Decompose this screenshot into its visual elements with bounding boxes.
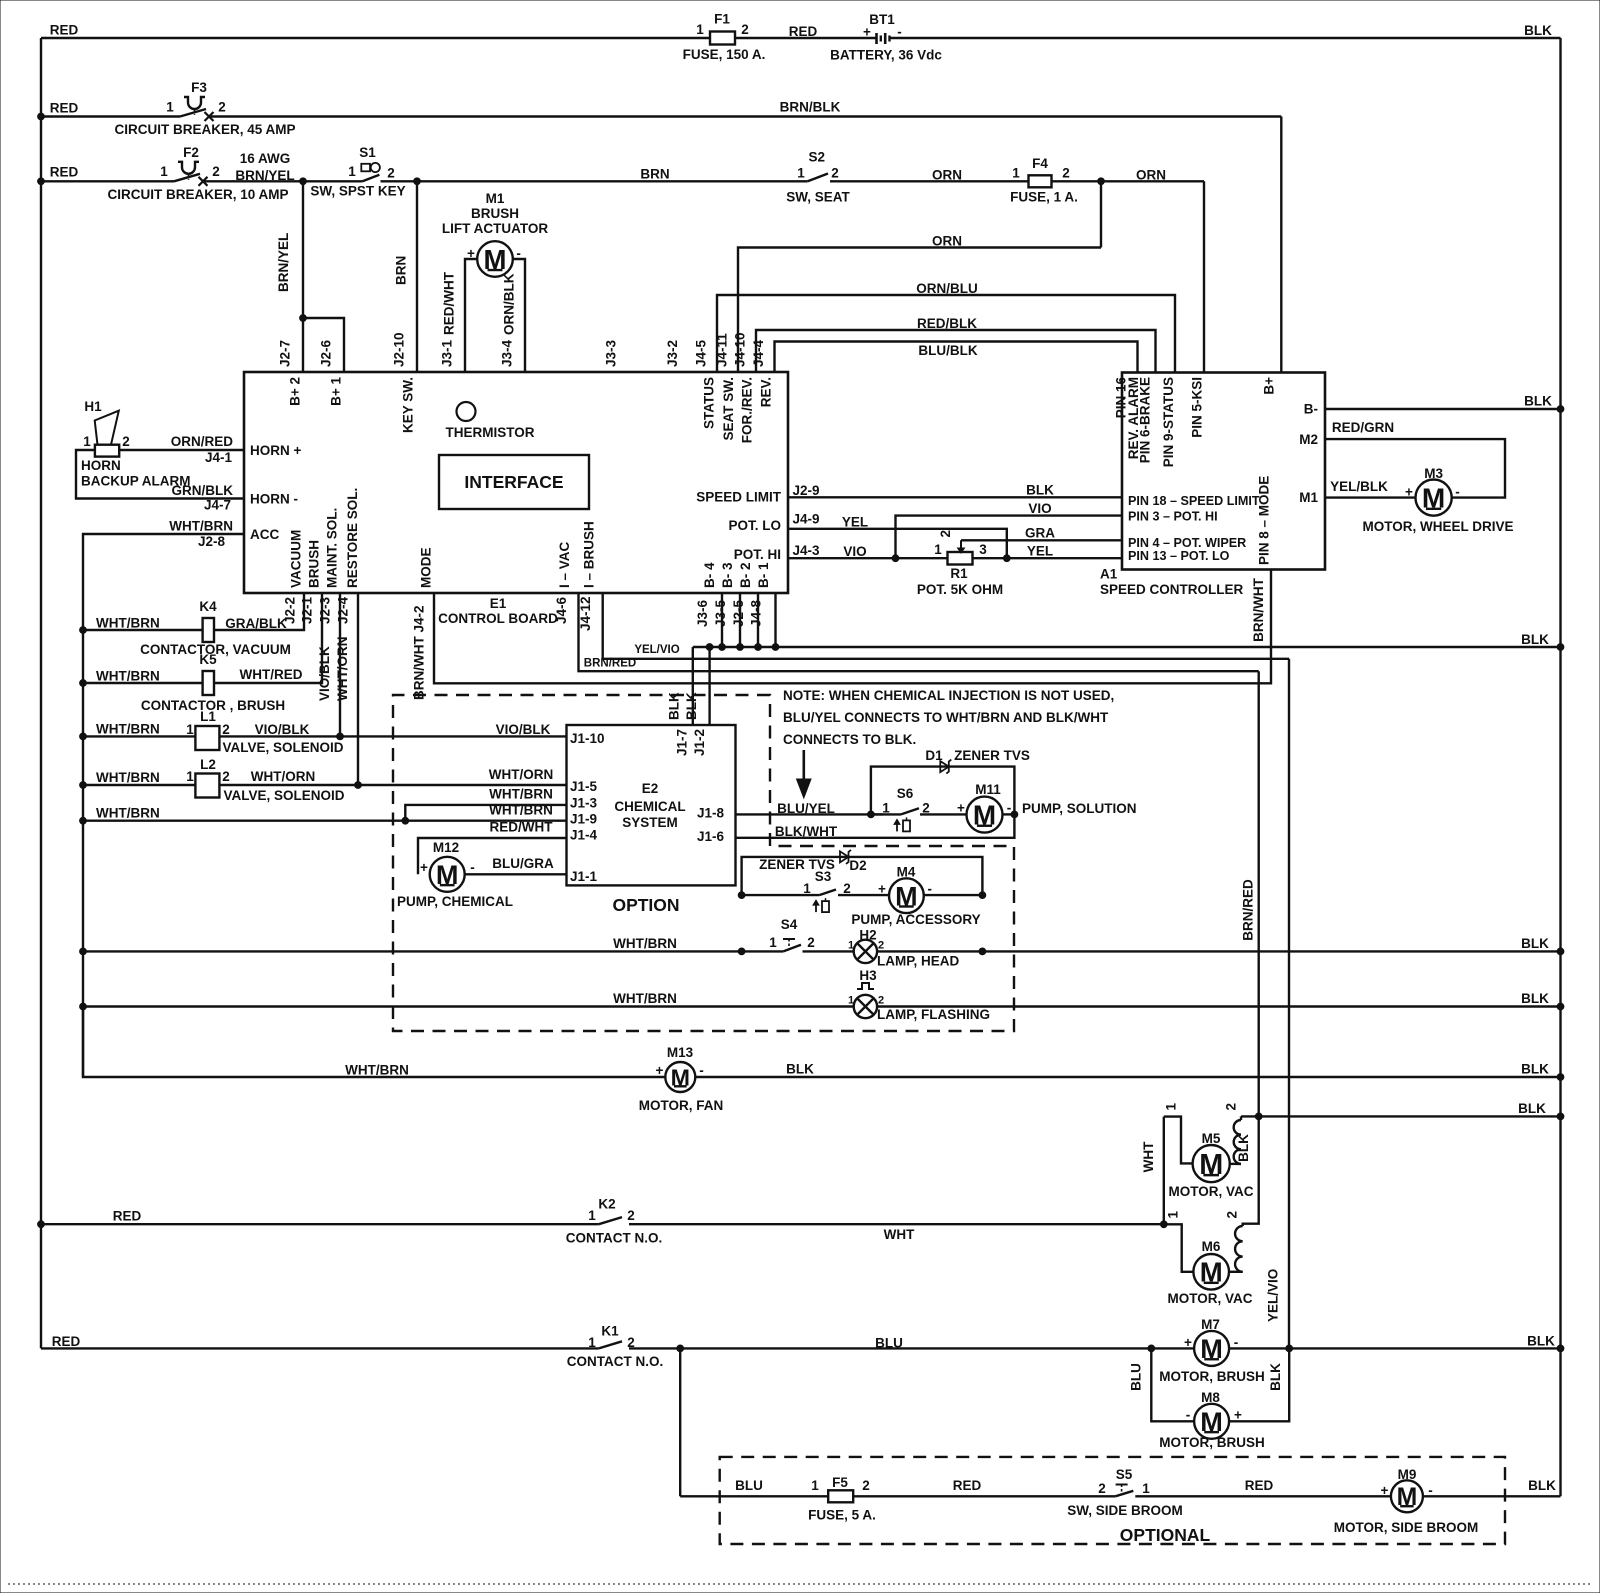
wire M5 lead 1 (1164, 1103, 1193, 1164)
svg-text:2: 2 (1062, 166, 1070, 181)
wire J3-1 RED/WHT (442, 259, 478, 372)
svg-text:BLK: BLK (1521, 1062, 1549, 1077)
svg-text:MOTOR, BRUSH: MOTOR, BRUSH (1159, 1369, 1265, 1384)
svg-text:WHT/BRN: WHT/BRN (613, 991, 677, 1006)
wire M13 to bus (695, 1062, 1564, 1081)
wire RED row2 (41, 101, 180, 117)
svg-text:ORN: ORN (932, 168, 962, 183)
svg-text:BLU/GRA: BLU/GRA (492, 856, 554, 871)
node J2-10 tap (414, 178, 421, 185)
wire WHT/BRN J1-9 row (83, 803, 567, 825)
wire ORN row (738, 234, 1101, 373)
svg-text:PIN 9-STATUS: PIN 9-STATUS (1161, 377, 1176, 467)
svg-text:BRN/YEL: BRN/YEL (235, 168, 294, 183)
svg-text:CONTACT N.O.: CONTACT N.O. (567, 1354, 664, 1369)
switch S5 (1067, 1467, 1183, 1518)
svg-text:-: - (699, 1063, 704, 1078)
wire RED/BLK row (756, 316, 1156, 373)
svg-text:1: 1 (934, 542, 942, 557)
svg-text:1: 1 (588, 1335, 596, 1350)
node K4 bus tap (80, 627, 87, 634)
wire RED/GRN M2 (1325, 420, 1505, 498)
svg-text:1: 1 (848, 940, 854, 952)
wire WHT/RED K5 to J2-1 (214, 593, 322, 683)
svg-text:ZENER TVS: ZENER TVS (954, 748, 1030, 763)
svg-text:WHT/BRN: WHT/BRN (96, 805, 160, 820)
label motor vac M5 (1168, 1184, 1253, 1199)
wire BLK row under board (693, 632, 1564, 651)
note text (783, 688, 1114, 747)
svg-text:I – VAC: I – VAC (557, 541, 572, 588)
svg-text:BRUSH: BRUSH (307, 540, 322, 588)
svg-text:ORN/BLU: ORN/BLU (916, 281, 978, 296)
wire J1-7 drop (667, 647, 693, 725)
svg-text:SPEED LIMIT: SPEED LIMIT (696, 490, 782, 505)
svg-text:RED: RED (953, 1478, 982, 1493)
svg-text:J2-3: J2-3 (318, 596, 333, 624)
node VIO tap (892, 555, 899, 562)
svg-text:BLK: BLK (1521, 632, 1549, 647)
svg-text:J1-7: J1-7 (674, 729, 689, 756)
svg-text:J4-3: J4-3 (792, 543, 820, 558)
svg-text:2: 2 (922, 800, 930, 815)
svg-text:YEL/BLK: YEL/BLK (1330, 479, 1388, 494)
svg-text:BLU: BLU (875, 1336, 903, 1351)
svg-text:2: 2 (222, 722, 230, 737)
wire GRA wiper (961, 526, 1122, 541)
wire WHT/BRN H2 row (83, 936, 783, 951)
lamp H2 head (848, 928, 884, 964)
svg-text:BATTERY, 36 Vdc: BATTERY, 36 Vdc (830, 47, 942, 62)
svg-text:J3-3: J3-3 (603, 339, 618, 367)
wire M5 BLK row (1241, 1101, 1564, 1120)
svg-text:2: 2 (831, 166, 839, 181)
svg-text:J1-4: J1-4 (570, 828, 598, 843)
node K5 bus tap (80, 680, 87, 687)
motor M4 pump accessory (878, 865, 932, 914)
svg-text:2: 2 (807, 935, 815, 950)
svg-text:2: 2 (122, 434, 130, 449)
svg-text:POT. LO: POT. LO (728, 518, 781, 533)
svg-text:RED/BLK: RED/BLK (917, 316, 977, 331)
wire GRN/BLK horn- (76, 450, 244, 513)
svg-text:WHT/BRN: WHT/BRN (96, 669, 160, 684)
svg-text:RED: RED (50, 101, 79, 116)
svg-text:CIRCUIT BREAKER, 45 AMP: CIRCUIT BREAKER, 45 AMP (114, 122, 295, 137)
svg-text:BRN/BLK: BRN/BLK (780, 100, 841, 115)
svg-text:+: + (957, 801, 965, 816)
svg-text:GRA: GRA (1025, 526, 1055, 541)
node L2 bus tap (80, 782, 87, 789)
svg-text:ORN/RED: ORN/RED (171, 434, 234, 449)
svg-text:BLK: BLK (1524, 394, 1552, 409)
svg-text:POT. 5K OHM: POT. 5K OHM (917, 582, 1003, 597)
svg-text:J2-1: J2-1 (300, 596, 315, 624)
svg-text:WHT/BRN: WHT/BRN (613, 936, 677, 951)
wire S3 to M4 (838, 894, 889, 896)
svg-text:CONNECTS TO BLK.: CONNECTS TO BLK. (783, 732, 916, 747)
wire S4 to H2 (738, 948, 854, 955)
wire ORN/BLU row (717, 281, 1175, 373)
wire left RED bus (40, 38, 42, 1348)
svg-text:GRN/BLK: GRN/BLK (172, 483, 234, 498)
switch S1 key (310, 145, 405, 198)
node J1-9 bus tap (80, 817, 87, 824)
svg-text:CONTROL BOARD: CONTROL BOARD (438, 611, 558, 626)
svg-text:S3: S3 (815, 869, 832, 884)
svg-text:J3-1: J3-1 (440, 339, 455, 367)
svg-text:+: + (1184, 1335, 1192, 1350)
wire BRN row3 (381, 166, 808, 181)
svg-text:M1: M1 (486, 191, 505, 206)
wire BRN/RED vertical (1241, 671, 1259, 1226)
svg-text:1: 1 (588, 1208, 596, 1223)
wire RED side broom 1 (853, 1478, 1115, 1496)
zener D1 (871, 748, 1030, 814)
wire BLU K1 row (629, 1336, 1194, 1352)
svg-text:2: 2 (1225, 1211, 1240, 1219)
svg-text:J4-6: J4-6 (554, 596, 569, 624)
wire BLK top row (890, 23, 1561, 38)
svg-text:SW, SIDE BROOM: SW, SIDE BROOM (1067, 1503, 1183, 1518)
svg-text:+: + (420, 860, 428, 875)
svg-text:F5: F5 (832, 1475, 848, 1490)
svg-text:1: 1 (1142, 1481, 1150, 1496)
svg-text:BRN/RED: BRN/RED (1241, 879, 1256, 941)
wire RED/WHT J1-4 (418, 820, 567, 875)
svg-text:J1-5: J1-5 (570, 779, 598, 794)
svg-text:KEY SW.: KEY SW. (401, 377, 416, 433)
svg-text:J2-10: J2-10 (392, 332, 407, 367)
wire ORN/RED horn+ (119, 434, 244, 465)
svg-text:M8: M8 (1201, 1390, 1220, 1405)
svg-text:1: 1 (848, 995, 854, 1007)
svg-text:BLK: BLK (1236, 1134, 1251, 1162)
svg-text:1: 1 (797, 166, 805, 181)
wire WHT/BRN J1-3 branch (405, 787, 566, 821)
svg-text:1: 1 (882, 800, 890, 815)
svg-text:F3: F3 (191, 80, 207, 95)
svg-text:B- 1: B- 1 (756, 562, 771, 588)
svg-text:1: 1 (1166, 1211, 1181, 1219)
svg-text:1: 1 (186, 722, 194, 737)
wire M4 out (924, 894, 983, 896)
svg-text:SPEED CONTROLLER: SPEED CONTROLLER (1100, 582, 1244, 597)
svg-text:VACUUM: VACUUM (289, 530, 304, 588)
wire M11 out (1003, 811, 1018, 818)
svg-text:BT1: BT1 (869, 12, 895, 27)
wire YEL/VIO vertical (1266, 659, 1290, 1349)
node YEL tap (1003, 555, 1010, 562)
svg-text:J3-5: J3-5 (713, 599, 728, 627)
svg-text:J4-9: J4-9 (792, 512, 819, 527)
svg-text:YEL/VIO: YEL/VIO (1266, 1269, 1281, 1322)
svg-text:B-: B- (1304, 402, 1318, 417)
node L1 bus tap (80, 733, 87, 740)
wire GRA/BLK K4 to J2-2 (214, 593, 304, 630)
svg-text:1: 1 (1164, 1103, 1179, 1111)
svg-text:B+ 1: B+ 1 (329, 377, 344, 406)
svg-text:OPTION: OPTION (612, 895, 679, 915)
svg-text:FUSE, 150 A.: FUSE, 150 A. (683, 47, 766, 62)
svg-text:B- 4: B- 4 (702, 562, 717, 588)
svg-text:SW, SPST KEY: SW, SPST KEY (310, 183, 405, 198)
svg-text:PUMP, ACCESSORY: PUMP, ACCESSORY (851, 912, 980, 927)
label lamp flashing (877, 1007, 990, 1022)
wire BRN drop J2-10 (394, 181, 418, 372)
svg-text:1: 1 (769, 935, 777, 950)
motor M9 side broom (1381, 1467, 1433, 1512)
wire YEL pot lo to controller (973, 544, 1123, 559)
switch S6 (871, 786, 930, 831)
wire WHT/BRN L1 (83, 722, 195, 737)
svg-text:1: 1 (160, 164, 168, 179)
wire J2-5 drop (755, 593, 762, 650)
svg-text:BLK: BLK (684, 692, 699, 720)
svg-text:J1-2: J1-2 (692, 729, 707, 756)
wire BRN/RED row (579, 593, 1259, 671)
svg-text:VIO/BLK: VIO/BLK (317, 646, 332, 701)
wire RED battery (735, 24, 877, 39)
svg-text:J2-5: J2-5 (731, 599, 746, 627)
wire RED row3 (41, 165, 174, 182)
svg-text:VIO/BLK: VIO/BLK (496, 722, 551, 737)
svg-text:J2-6: J2-6 (319, 339, 334, 367)
node bus row3 (38, 178, 45, 185)
svg-text:MOTOR, VAC: MOTOR, VAC (1167, 1291, 1252, 1306)
svg-text:H1: H1 (84, 399, 102, 414)
svg-text:J2-7: J2-7 (278, 340, 293, 367)
svg-text:J2-8: J2-8 (198, 534, 226, 549)
fuse F5 (808, 1475, 876, 1523)
svg-text:BLK: BLK (1518, 1101, 1546, 1116)
svg-text:WHT/BRN: WHT/BRN (345, 1063, 409, 1078)
svg-text:ORN: ORN (932, 234, 962, 249)
svg-text:K2: K2 (598, 1197, 615, 1212)
svg-text:FOR./REV.: FOR./REV. (740, 377, 755, 443)
svg-text:INTERFACE: INTERFACE (464, 472, 563, 492)
svg-text:VALVE, SOLENOID: VALVE, SOLENOID (222, 740, 343, 755)
wire BRN/YEL to S1 (203, 151, 363, 183)
svg-text:A1: A1 (1100, 567, 1118, 582)
svg-text:FUSE, 5 A.: FUSE, 5 A. (808, 1508, 876, 1523)
svg-text:MAINT. SOL.: MAINT. SOL. (325, 508, 340, 588)
control board E1 box (244, 372, 788, 593)
svg-text:J2-9: J2-9 (792, 483, 819, 498)
wire J3-5 drop (737, 593, 744, 650)
wire M6 lead 1 (1164, 1211, 1193, 1272)
svg-text:E2: E2 (642, 781, 659, 796)
chemical system E2 box (567, 725, 736, 885)
svg-text:BRN/RED: BRN/RED (584, 658, 636, 670)
labels controller right pins (1299, 402, 1318, 506)
switch S2 seat (786, 150, 850, 205)
svg-text:2: 2 (222, 769, 230, 784)
label PIN 8 MODE (1257, 476, 1272, 565)
wire YEL pot lo (788, 512, 1007, 559)
svg-text:J1-8: J1-8 (697, 806, 725, 821)
svg-text:K5: K5 (199, 652, 217, 667)
labels board left pins (250, 443, 301, 542)
svg-text:F4: F4 (1032, 156, 1048, 171)
svg-text:M6: M6 (1202, 1239, 1221, 1254)
svg-text:+: + (1405, 485, 1413, 500)
coil M5 (1224, 1103, 1252, 1164)
svg-text:J4-10: J4-10 (733, 332, 748, 367)
svg-text:WHT: WHT (884, 1227, 915, 1242)
horn H1 backup alarm (81, 399, 191, 489)
node BRN/YEL branch (300, 315, 307, 322)
circuit breaker F2 (107, 145, 288, 202)
svg-text:BLK: BLK (1026, 483, 1054, 498)
motor M8 brush (1186, 1390, 1242, 1439)
labels E2 top pins (674, 729, 707, 756)
svg-text:YEL/VIO: YEL/VIO (634, 644, 679, 656)
svg-text:SW, SEAT: SW, SEAT (786, 190, 850, 205)
svg-text:VALVE, SOLENOID: VALVE, SOLENOID (223, 788, 344, 803)
svg-text:BLK: BLK (667, 692, 682, 720)
label E1 (438, 596, 558, 626)
wire VIO jog (896, 501, 1123, 558)
svg-text:F2: F2 (183, 145, 199, 160)
svg-text:2: 2 (843, 881, 851, 896)
svg-text:BLU/YEL CONNECTS TO WHT/BRN AN: BLU/YEL CONNECTS TO WHT/BRN AND BLK/WHT (783, 710, 1109, 725)
motor M12 pump chemical (420, 840, 475, 892)
svg-text:B- 2: B- 2 (738, 562, 753, 588)
svg-text:1: 1 (83, 434, 91, 449)
svg-text:MOTOR, FAN: MOTOR, FAN (639, 1098, 724, 1113)
svg-text:B- 3: B- 3 (720, 562, 735, 588)
svg-text:RED/WHT: RED/WHT (442, 271, 457, 335)
potentiometer R1 (917, 530, 1003, 597)
labels board top pin names (288, 377, 774, 444)
svg-text:YEL: YEL (842, 515, 868, 530)
coil M6 (1225, 1211, 1243, 1272)
svg-text:BLU/BLK: BLU/BLK (918, 343, 977, 358)
node K2 bus tap (38, 1221, 45, 1228)
svg-text:MODE: MODE (419, 548, 434, 589)
wire H2 to bus (877, 936, 1564, 955)
svg-text:PUMP, SOLUTION: PUMP, SOLUTION (1022, 801, 1137, 816)
svg-text:THERMISTOR: THERMISTOR (445, 425, 534, 440)
motor M3 wheel drive (1362, 466, 1513, 534)
motor M13 fan (656, 1045, 704, 1092)
labels board bottom pin names (289, 488, 772, 588)
svg-text:OPTIONAL: OPTIONAL (1120, 1525, 1211, 1545)
lamp H3 flashing (848, 968, 884, 1018)
speed controller A1 box (1122, 373, 1325, 570)
wire WHT vertical (1141, 1117, 1164, 1225)
svg-text:1: 1 (803, 881, 811, 896)
svg-text:1: 1 (811, 1478, 819, 1493)
wire YEL/VIO row (603, 593, 1289, 659)
svg-text:S4: S4 (781, 917, 798, 932)
motor M1 brush lift actuator (442, 191, 548, 277)
svg-text:BRN: BRN (394, 256, 409, 285)
svg-text:2: 2 (1224, 1103, 1239, 1111)
svg-text:D1: D1 (925, 748, 943, 763)
battery BT1 (830, 12, 942, 62)
svg-text:J3-6: J3-6 (695, 599, 710, 627)
svg-text:PIN 8 – MODE: PIN 8 – MODE (1257, 476, 1272, 565)
svg-text:J1-10: J1-10 (570, 731, 605, 746)
label motor brush M8 (1159, 1435, 1265, 1450)
label lamp head (877, 954, 960, 969)
wire BRN/BLK (209, 100, 1281, 117)
svg-text:RED: RED (113, 1209, 142, 1224)
wire BLU/YEL J1-8 (736, 801, 884, 818)
valve L1 solenoid (186, 709, 344, 755)
svg-text:VIO/BLK: VIO/BLK (255, 722, 310, 737)
svg-text:J4-1: J4-1 (205, 450, 233, 465)
wire YEL/BLK M1 (1325, 479, 1416, 498)
svg-text:VIO: VIO (843, 544, 866, 559)
wire WHT/BRN K5 (83, 669, 203, 684)
svg-text:M5: M5 (1202, 1131, 1221, 1146)
svg-text:K1: K1 (601, 1324, 619, 1339)
svg-text:HORN -: HORN - (250, 492, 298, 507)
svg-text:MOTOR, SIDE BROOM: MOTOR, SIDE BROOM (1334, 1520, 1479, 1535)
label OPTIONAL (1120, 1525, 1211, 1545)
svg-text:RED: RED (1245, 1478, 1274, 1493)
note arrow (797, 750, 812, 798)
svg-text:FUSE, 1 A.: FUSE, 1 A. (1010, 190, 1078, 205)
wire ORN to KSI (1052, 168, 1204, 183)
svg-text:GRA/BLK: GRA/BLK (225, 616, 287, 631)
svg-text:F1: F1 (714, 12, 730, 27)
svg-text:R1: R1 (950, 566, 968, 581)
circuit breaker F3 (114, 80, 295, 137)
interface box (439, 455, 589, 509)
svg-text:YEL: YEL (1027, 544, 1053, 559)
svg-text:STATUS: STATUS (702, 377, 717, 429)
svg-text:POT. HI: POT. HI (734, 547, 781, 562)
switch S3 (738, 869, 986, 912)
thermistor (445, 402, 534, 440)
svg-text:1: 1 (186, 769, 194, 784)
svg-text:D2: D2 (849, 858, 866, 873)
label motor side broom (1334, 1520, 1479, 1535)
svg-text:RED: RED (789, 24, 818, 39)
wire WHT/BRN M13 row (83, 1007, 665, 1078)
svg-text:PIN 13 – POT. LO: PIN 13 – POT. LO (1128, 549, 1230, 563)
wire RED K2 (41, 1209, 599, 1225)
labels E2 right pins (697, 806, 725, 845)
svg-text:BLK: BLK (1528, 1478, 1556, 1493)
svg-text:J4-11: J4-11 (715, 333, 730, 367)
svg-text:RED/GRN: RED/GRN (1332, 420, 1394, 435)
label motor brush M7 (1159, 1369, 1265, 1384)
svg-text:SEAT SW.: SEAT SW. (721, 377, 736, 441)
svg-text:J1-3: J1-3 (570, 796, 598, 811)
svg-text:PIN 6-BRAKE: PIN 6-BRAKE (1138, 377, 1153, 463)
labels controller top pins (1114, 377, 1277, 468)
svg-text:M9: M9 (1398, 1467, 1417, 1482)
wire BRN/WHT mode row (434, 570, 1271, 684)
svg-text:CONTACT N.O.: CONTACT N.O. (566, 1231, 663, 1246)
dashed optional border (720, 1457, 1505, 1544)
svg-text:CIRCUIT BREAKER, 10 AMP: CIRCUIT BREAKER, 10 AMP (107, 187, 288, 202)
svg-text:J4-4: J4-4 (751, 339, 766, 367)
svg-text:BLK: BLK (786, 1062, 814, 1077)
labels board top pins (278, 332, 767, 367)
svg-text:-: - (1455, 485, 1460, 500)
svg-text:WHT: WHT (1141, 1141, 1156, 1172)
wire BLU/BLK row (775, 342, 1138, 373)
svg-text:J4-5: J4-5 (694, 339, 709, 367)
svg-text:2: 2 (862, 1478, 870, 1493)
svg-text:J3-2: J3-2 (665, 340, 680, 367)
